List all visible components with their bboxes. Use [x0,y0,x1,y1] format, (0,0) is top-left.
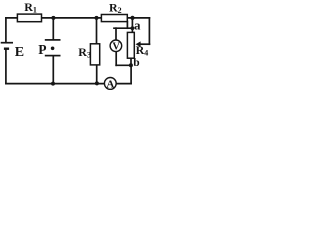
rheostat R4 [127,32,134,58]
rheostat slider arrowhead [136,41,141,47]
node dot R3 bottom junction [95,81,99,85]
capacitor top plate [45,39,61,41]
node dot capacitor bottom junction [51,82,55,86]
wire left lower (battery bottom lead) [5,49,7,83]
wire voltmeter top horizontal [114,27,132,29]
wire R4 bottom lead to node b [130,58,132,65]
wire top bus [6,17,150,19]
wire bottom bus [6,83,131,85]
battery E long plate [1,42,13,44]
node dot capacitor top junction [51,16,55,20]
wire node to a [131,18,133,33]
ammeter A circle [104,78,116,90]
wire right riser (b to bottom-right corner) [130,65,132,83]
wire voltmeter top stem [115,28,117,40]
node dot right main junction [130,16,134,20]
node dot a [131,26,135,30]
node dot b [129,63,133,67]
resistor R3 [90,44,99,65]
wire voltmeter top connection to R2 output [126,22,128,29]
svg-text:P: P [38,42,46,57]
wire rheostat slider right drop [148,18,150,44]
wire capacitor bottom lead [52,56,54,83]
wire voltmeter bottom to node b [116,64,131,66]
voltmeter U1 circle [110,40,122,52]
wire voltmeter bottom stem [115,52,117,66]
capacitor bottom plate [45,55,61,57]
wire left upper (battery top lead) [5,18,7,42]
svg-text:V: V [112,41,120,52]
svg-text:A: A [106,78,114,90]
resistor R1 [17,14,41,22]
resistor R2 [101,15,127,22]
wire capacitor top lead [52,18,54,39]
svg-text:a: a [134,18,141,33]
wire R3 bottom lead [96,65,98,84]
svg-text:E: E [15,45,24,60]
wire R3 top lead [96,18,98,44]
charged particle P dot [51,47,55,51]
battery E short plate [4,48,9,50]
svg-text:b: b [133,57,139,69]
node dot R3 top junction [95,16,99,20]
wire rheostat slider arrow shaft [140,43,149,45]
